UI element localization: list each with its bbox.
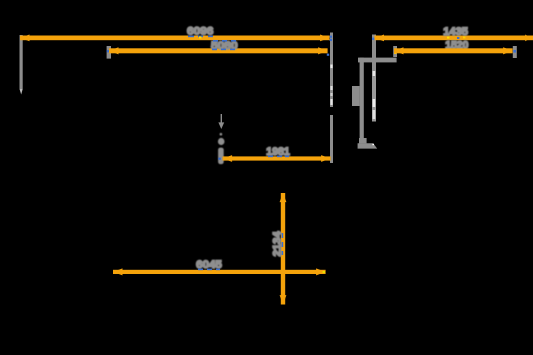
extension line left (gray vertical, top-left group) (20, 35, 23, 95)
blue handle on D2 start tick (107, 50, 109, 52)
vertical mini dimension: rotated value text (218, 133, 225, 164)
left leg (gray vertical) (360, 58, 364, 139)
blue dashed marks right of rotated label (282, 233, 284, 255)
dimension line D1 (top long horizontal) (20, 35, 330, 42)
yellow midpoint handle on D1 (199, 36, 201, 38)
label 1981 (dim D3 value) (266, 146, 290, 158)
mast pole (gray vertical, right group) (372, 35, 376, 122)
vertical mini dimension: arrowhead down (218, 122, 224, 129)
tick at end of dimension line D5 (513, 46, 517, 58)
blue dashed marks under label 6096 (188, 36, 213, 38)
yellow handle at D6 right tip (323, 271, 325, 273)
svg-text:5080: 5080 (211, 40, 238, 52)
blue dashed marks under label 6045 (198, 269, 220, 271)
label 6045 (dim D6 value) (196, 259, 222, 271)
mast base foot (358, 143, 378, 148)
dimension line D6 (bottom horizontal) (113, 268, 326, 275)
svg-text:1435: 1435 (443, 26, 468, 38)
mast base step (359, 138, 367, 143)
blue handle at D5 end tick (513, 50, 516, 53)
blue handle at D4 start (372, 38, 374, 40)
yellow/blue handles at D5 start (394, 48, 396, 50)
blue handle at D3 left end (218, 158, 220, 160)
dimension line D4 (top-right, to image edge) (375, 35, 533, 42)
bracket arm (gray horizontal) (358, 58, 397, 63)
label 6096 (dim D1 value) (187, 26, 213, 38)
dimension line D5 (second right horizontal) (394, 47, 513, 54)
dimension line D3 (short horizontal above rail) (223, 155, 331, 162)
blue dashed marks under label 1981 (268, 156, 289, 158)
tick at start of dimension line D2 (107, 46, 111, 59)
blue dashed marks around label 5080 (212, 40, 236, 50)
label 2134 rotated (dim V1 value) (271, 231, 283, 257)
white speck on foot (372, 144, 374, 145)
left block on leg (352, 86, 360, 106)
vertical dimension line V1 (bottom group) (280, 193, 287, 305)
vertical mini dimension: extension line (221, 114, 222, 123)
yellow+blue handle specks under label 1435 (447, 36, 465, 39)
dimension line D2 (second horizontal) (109, 47, 328, 54)
extension line right (gray vertical at x=331) (330, 33, 333, 164)
blue handles at D1/D2 right ends (330, 36, 332, 38)
tick at start of dimension line D5 (393, 46, 397, 57)
label 5080 (dim D2 value) (211, 40, 238, 52)
label 1435 (dim D4 value) (443, 26, 468, 38)
label 1520 (dim D5 value, between lines) (445, 40, 468, 52)
